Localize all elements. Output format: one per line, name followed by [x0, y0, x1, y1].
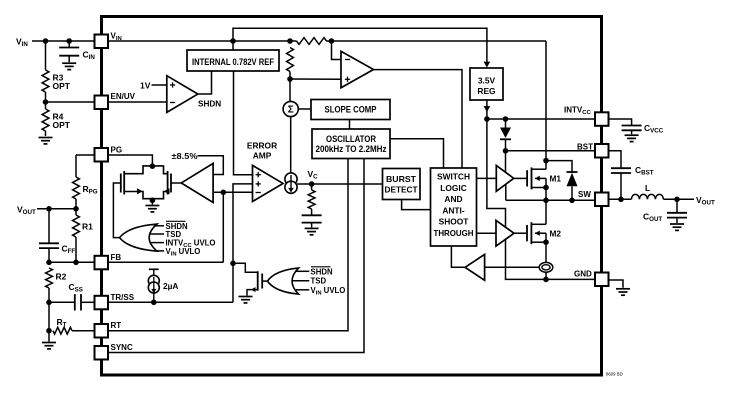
wire SYNC to osc — [108, 159, 364, 353]
op-amp current sense amp — [485, 266, 540, 268]
svg-text:L: L — [645, 183, 650, 193]
capacitor CFF — [48, 209, 50, 244]
wire sense to gnd rail — [545, 272, 547, 279]
wire VOUT — [37, 208, 76, 210]
resistor RT — [53, 327, 72, 334]
junction VIN-CIN — [66, 38, 72, 44]
junction BST node — [503, 148, 509, 154]
svg-text:PG: PG — [111, 146, 123, 155]
svg-text:OPT: OPT — [53, 81, 71, 91]
junction rail-ref — [230, 38, 236, 44]
svg-text:1V: 1V — [140, 80, 151, 90]
resistor R2 — [46, 268, 53, 288]
svg-text:SHDN: SHDN — [198, 99, 221, 108]
ground RT — [48, 331, 50, 342]
op-amp EN comparator U-EN — [167, 76, 198, 113]
ground R4 — [39, 137, 53, 139]
wire 1V to comparator — [152, 84, 167, 86]
capacitor CIN — [68, 41, 70, 48]
gate OR PG input stubs — [154, 225, 165, 227]
buffer M2 driver — [496, 220, 514, 246]
wire driver return SW — [505, 184, 507, 200]
wire EN divider to pin — [46, 101, 95, 103]
resistor R4 — [45, 102, 47, 109]
junction SS node — [230, 261, 236, 267]
wire M1 gate — [514, 177, 527, 179]
block OSCILLATOR — [312, 129, 390, 159]
ground CVCC — [625, 134, 639, 136]
transistor SS pulldown — [233, 263, 258, 272]
capacitor CSS — [49, 301, 75, 303]
svg-text:REG: REG — [477, 86, 495, 96]
junction PG bottom — [150, 198, 156, 204]
IC boundary box — [102, 17, 602, 376]
svg-text:LOGIC: LOGIC — [440, 183, 467, 193]
wire switch to M1 driver — [477, 177, 497, 179]
svg-text:8609 BD: 8609 BD — [606, 372, 623, 377]
svg-text:BST: BST — [577, 142, 593, 151]
svg-text:EN/UV: EN/UV — [111, 92, 136, 101]
junction ramp node — [287, 76, 293, 82]
wire R2 to RT node — [48, 302, 50, 330]
wire SW out — [609, 198, 632, 200]
ground GND pin — [609, 280, 624, 288]
block 3.5V REG — [470, 68, 503, 100]
wire sense amp to switch — [451, 246, 465, 267]
ground COUT — [670, 223, 684, 225]
capacitor CVCC — [609, 119, 632, 126]
block INTERNAL 0.782V REF — [187, 50, 279, 71]
svg-text:SYNC: SYNC — [111, 343, 133, 352]
wire sigma down — [290, 117, 292, 174]
diode M1 body — [546, 161, 572, 172]
svg-text:R1: R1 — [82, 222, 93, 232]
wire SHDN out to ref — [198, 71, 212, 94]
svg-text:GND: GND — [574, 270, 592, 279]
svg-text:3.5V: 3.5V — [478, 75, 496, 85]
wire BST to driver — [505, 151, 507, 173]
current sense element — [539, 262, 553, 272]
wire burst to switch — [402, 200, 431, 210]
svg-text:SWITCH: SWITCH — [437, 172, 470, 182]
svg-text:M1: M1 — [550, 173, 562, 183]
junction rail-Rsense-left — [287, 38, 293, 44]
block SLOPE COMP — [311, 100, 390, 120]
svg-text:AND: AND — [444, 194, 462, 204]
wire window comp out to gate — [171, 182, 181, 184]
svg-text:R2: R2 — [56, 272, 67, 282]
current source error amp out — [285, 173, 297, 185]
pin EN/UV — [95, 96, 109, 110]
svg-text:2µA: 2µA — [163, 281, 178, 291]
wire M2 driver return — [506, 239, 596, 279]
wire osc to switch logic — [390, 139, 444, 168]
svg-text:TSD: TSD — [311, 277, 327, 286]
svg-text:THROUGH: THROUGH — [434, 228, 474, 238]
wire sigma to slope comp — [298, 108, 311, 110]
svg-text:RT: RT — [111, 321, 122, 330]
wire VIN input — [32, 40, 95, 42]
wire TRSS rail — [108, 301, 233, 303]
buffer M1 driver — [496, 165, 513, 191]
junction VIN-R3 — [43, 38, 49, 44]
wire ramp to sigma — [289, 79, 291, 102]
junction M1 drain node — [543, 158, 549, 164]
wire INTVCC rail — [487, 118, 595, 120]
svg-text:SW: SW — [578, 190, 591, 199]
svg-text:FB: FB — [111, 253, 122, 262]
svg-text:±8.5%: ±8.5% — [172, 151, 199, 161]
svg-text:ANTI-: ANTI- — [442, 205, 465, 215]
junction CFF-FB — [46, 260, 52, 266]
wire 3.5V reg feed — [233, 28, 487, 64]
junction VC — [309, 181, 315, 187]
gate OR SS input stubs — [296, 270, 310, 272]
op-amp current comparator — [341, 51, 374, 88]
transistor M1 — [526, 170, 528, 186]
junction R2-CSS — [46, 300, 52, 306]
junction RT node — [46, 328, 52, 334]
resistor current-sense top — [297, 38, 327, 45]
resistor VC comp — [311, 184, 313, 190]
diode boost D1 — [505, 119, 507, 128]
summing node sigma — [283, 101, 298, 116]
svg-text:TR/SS: TR/SS — [111, 293, 135, 302]
wire SW rail — [506, 199, 595, 201]
transistor M2 — [526, 225, 528, 241]
junction R3-R4 — [43, 99, 49, 105]
transistor PG pair — [124, 166, 167, 174]
svg-text:SHDN: SHDN — [311, 267, 333, 276]
capacitor CBST — [609, 151, 622, 168]
junction intvcc-left — [484, 116, 490, 122]
pin SW — [595, 193, 609, 207]
pin FB — [95, 256, 109, 269]
junction GND-M2 — [543, 277, 549, 283]
wire EN pin to comparator — [108, 101, 167, 103]
resistor ramp — [287, 48, 294, 72]
wire window ref label — [198, 156, 224, 175]
ground CIN — [62, 62, 76, 64]
svg-text:DETECT: DETECT — [385, 184, 419, 194]
junction SW-CBST — [618, 197, 624, 203]
resistor R1 — [75, 209, 77, 215]
pin GND — [595, 273, 609, 287]
wire comparator to switch logic — [374, 70, 463, 168]
wire ramp to comparator plus — [290, 78, 341, 80]
svg-text:BURST: BURST — [386, 174, 417, 184]
junction M1 source — [543, 185, 549, 191]
arrow into 3.5V reg — [484, 62, 491, 68]
wire switch to M2 driver — [477, 232, 497, 234]
wire fb riser — [222, 192, 224, 262]
svg-text:SHOOT: SHOOT — [439, 217, 470, 227]
wire RT to osc — [108, 159, 348, 331]
junction SW-M1 — [543, 198, 549, 204]
pin SYNC — [95, 346, 109, 360]
ground PG — [151, 199, 153, 205]
junction PG top — [150, 163, 156, 169]
svg-text:SLOPE COMP: SLOPE COMP — [325, 105, 377, 115]
junction fb tap — [221, 190, 227, 196]
wire FB rail internal — [108, 261, 223, 263]
gate OR SS fault — [267, 268, 298, 294]
svg-text:Σ: Σ — [288, 105, 294, 116]
op-amp window comparator — [181, 163, 213, 202]
pin VIN — [95, 35, 109, 49]
svg-text:200kHz TO 2.2MHz: 200kHz TO 2.2MHz — [316, 144, 388, 154]
pin PG — [95, 148, 109, 162]
block BURST DETECT — [383, 169, 421, 200]
wire FB external — [49, 261, 95, 263]
pin RT — [95, 324, 109, 338]
op-amp error amp U-EA — [253, 165, 284, 201]
junction rail-sense-right — [329, 38, 335, 44]
resistor RPG — [76, 154, 95, 156]
block SWITCH LOGIC AND ANTI-SHOOT THROUGH — [431, 168, 477, 246]
wire ss to error amp — [233, 184, 253, 302]
wire fb to error amp — [213, 191, 252, 193]
wire PG pin to pulldown — [108, 155, 152, 166]
junction M2 source — [543, 239, 549, 245]
gate OR PG fault — [120, 224, 158, 251]
svg-text:OSCILLATOR: OSCILLATOR — [326, 134, 377, 144]
ground SS pulldown — [239, 296, 253, 298]
svg-text:AMP: AMP — [253, 151, 272, 161]
wire INTVCC to M2 driver — [487, 119, 506, 227]
junction SW-diode — [569, 198, 575, 204]
svg-text:OPT: OPT — [53, 120, 71, 130]
current source 2uA — [149, 268, 159, 270]
svg-text:M2: M2 — [550, 228, 562, 238]
resistor R3 — [45, 41, 47, 70]
junction L-COUT — [674, 197, 680, 203]
svg-text:ERROR: ERROR — [247, 141, 277, 151]
wire ref to error amp — [234, 71, 253, 175]
junction intvcc-diode — [503, 116, 509, 122]
wire VIN rail — [108, 40, 297, 42]
pin INTVCC — [595, 112, 609, 126]
capacitor VC comp — [302, 214, 322, 216]
junction VOUT-R1 — [73, 206, 79, 212]
wire M2 gate — [514, 232, 527, 234]
wire reg to intvcc — [486, 100, 488, 119]
wire slope to osc — [349, 120, 351, 130]
ground VC comp — [305, 227, 319, 229]
junction 2uA — [151, 300, 157, 306]
wire VIN drop to M1 — [545, 41, 547, 169]
junction VOUT-CFF — [46, 206, 52, 212]
junction R1-FB — [73, 260, 79, 266]
wire sense to comparator minus — [332, 41, 342, 60]
capacitor COUT — [676, 199, 678, 213]
pin TR/SS — [95, 296, 109, 310]
wire ref box feed — [232, 41, 234, 50]
inductor L — [631, 194, 663, 199]
svg-text:INTERNAL 0.782V REF: INTERNAL 0.782V REF — [192, 57, 275, 67]
wire BST rail — [506, 150, 596, 152]
wire VC node — [297, 183, 382, 185]
pin BST — [595, 144, 609, 158]
wire PG left gate — [113, 183, 120, 238]
